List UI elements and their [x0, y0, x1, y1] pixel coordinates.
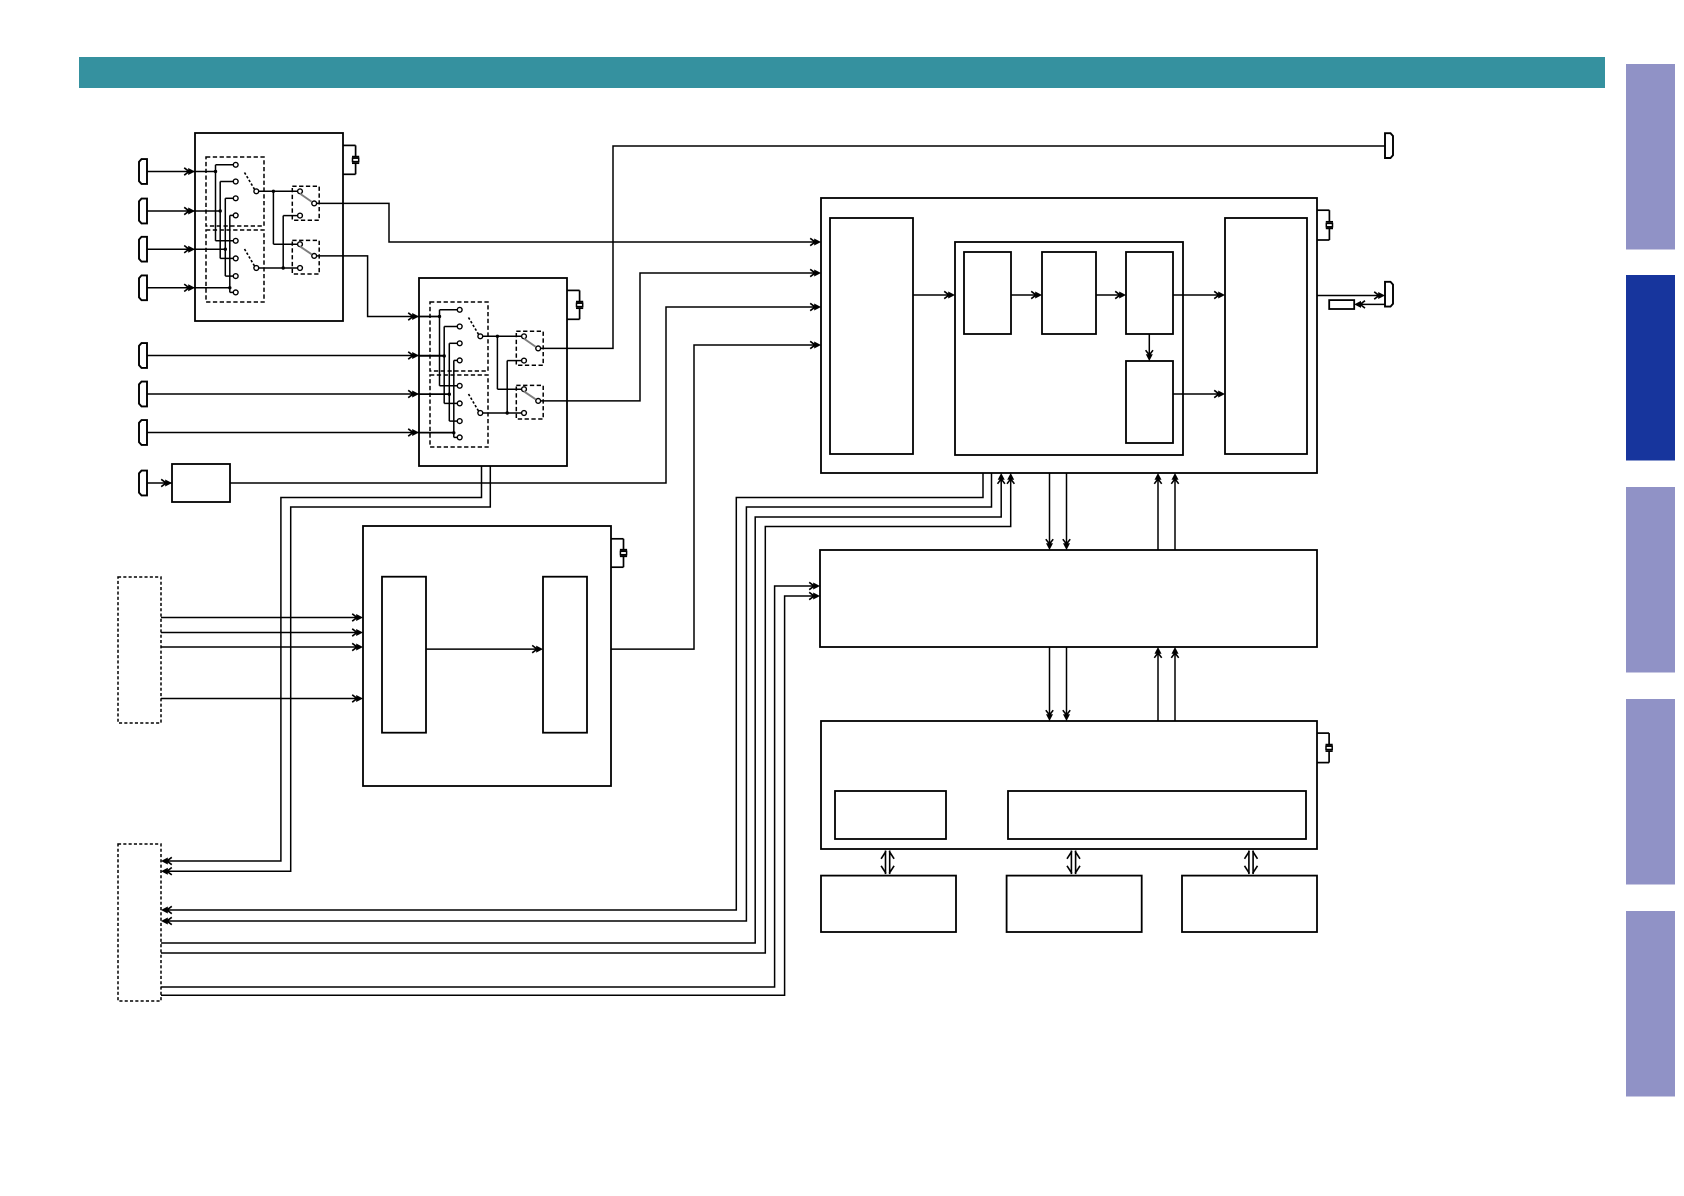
connector J1 [139, 159, 147, 184]
SW1 input2 entry wire [195, 210, 220, 212]
connector J2 [139, 199, 147, 224]
SW1 rotary A pole wire [259, 190, 297, 192]
bus down CPU to G #1 [1049, 473, 1051, 547]
bus down G to H #1 [1049, 647, 1051, 718]
SW1 rotary A wiper arm [245, 173, 255, 190]
wire keypad to CPU f [161, 476, 1011, 953]
SW2 input2 link to contact 2a [444, 326, 457, 328]
arrow into F #2 [352, 629, 363, 636]
SW1 rotary B pole wire [259, 267, 297, 269]
SW1 out-switch U pole [312, 201, 317, 206]
arrow into F #3 [352, 643, 363, 650]
connector J8 [139, 471, 147, 496]
arrow into SW1 input 4 [184, 284, 195, 291]
teal title bar [79, 57, 1605, 88]
SW1 pole A cross-link to switch L [273, 243, 297, 245]
SW2 input2 junction [443, 354, 446, 357]
SW1 input1 riser [215, 165, 217, 241]
SW2 outer box [419, 278, 567, 466]
H sub-block bus interface [1008, 791, 1306, 839]
arrow into driver bottom [1214, 390, 1225, 397]
SW2 rotary section B (dashed) [430, 375, 488, 447]
CPU stage D [1126, 361, 1173, 443]
F sub-block driver 2 [543, 577, 587, 733]
wire F1 to F2 [426, 648, 540, 650]
wire F out to CPU [611, 345, 818, 649]
SW2 input4 junction [452, 431, 455, 434]
connector CN9 (top right) [1385, 133, 1393, 158]
wire J6 to SW2 [147, 393, 449, 395]
controller box H [821, 721, 1317, 849]
terminator component [1329, 300, 1354, 309]
SW1 input2 link to contact 2a [220, 181, 233, 183]
wire keypad to G g [161, 586, 817, 987]
SW2 rotary B contact 1 [457, 383, 462, 388]
SW1 input3 entry wire [195, 248, 225, 250]
SW2 rotary A contact 1 [457, 307, 462, 312]
SW1 outer box [195, 133, 343, 321]
arrow into CPU input 2 [810, 269, 821, 276]
SW2 rotary A pole wire [483, 335, 521, 337]
wire CPU out to CN10 [1317, 295, 1382, 297]
wire J2 to SW1 [147, 210, 195, 212]
wire CN10 return to terminator [1357, 303, 1385, 305]
bus arrow H to M1 [881, 851, 894, 875]
wire J7 to SW2 [147, 432, 454, 434]
arrow into SW2 input 3 [408, 390, 419, 397]
CPU stage B [1042, 252, 1096, 334]
wire stage B to C [1096, 294, 1123, 296]
SW2 rotary B contact 2 [457, 401, 462, 406]
crystal X5 [611, 539, 627, 567]
SW1 input3 link to contact 3a [225, 197, 233, 199]
SW2 rotary A pole [478, 334, 483, 339]
SW2 pole A tee junction [496, 335, 499, 338]
wire buffer out to main CPU [230, 307, 818, 483]
side tab 1 [1626, 64, 1675, 250]
wire SW1 out-L to SW2 [317, 256, 440, 317]
arrow into core frame [944, 291, 955, 298]
arrow into SW2 input 1 [408, 313, 419, 320]
wire SW2 out-U to video connector [541, 146, 1385, 348]
SW1 input1 link to contact 1a [216, 164, 234, 166]
SW1 out-switch L arm [300, 246, 312, 254]
crystal X3 [1317, 210, 1333, 240]
SW1 rotary B contact 1 [233, 238, 238, 243]
keypad box K (dashed) [118, 844, 161, 1001]
LCD drive box F [363, 526, 611, 786]
SW2 pole B tee junction [506, 411, 509, 414]
SW1 out-switch U (dashed) [292, 186, 319, 220]
SW2 input1 entry wire [419, 316, 440, 318]
arrow into F #1 [352, 614, 363, 621]
arrow into G left g [809, 582, 820, 589]
arrow into F #4 [352, 695, 363, 702]
arrow into SW1 input 3 [184, 246, 195, 253]
CPU input buffer block [830, 218, 913, 454]
wire J1 to SW1 [147, 171, 195, 173]
side tab 2 (active) [1626, 275, 1675, 461]
arrow into terminator [1354, 301, 1365, 308]
SW2 input2 riser [443, 327, 445, 404]
arrow into CPU bottom #2 [1171, 473, 1178, 484]
side tab 5 [1626, 911, 1675, 1097]
bus up H to G #1 [1157, 650, 1159, 721]
SW1 rotary B contact 3 [233, 274, 238, 279]
main CPU box U1 [821, 198, 1317, 473]
wire keypad to G h [161, 596, 817, 995]
bus up G to CPU #2 [1174, 476, 1176, 550]
arrow into keypad box b [161, 868, 172, 875]
SW1 out-switch L contact bottom [298, 266, 303, 271]
SW1 input1 link to contact 1b [216, 240, 234, 242]
CPU stage A [964, 252, 1011, 334]
arrow into keypad box c [161, 906, 172, 913]
arrow into SW1 input 1 [184, 168, 195, 175]
SW1 input3 riser [224, 198, 226, 276]
SW1 input1 entry wire [195, 171, 216, 173]
SW1 rotary section B (dashed) [206, 230, 264, 302]
SW1 out-switch U contact top [298, 189, 303, 194]
SW2 rotary B pole [478, 411, 483, 416]
arrow into CPU input 4 [810, 341, 821, 348]
CPU output driver block [1225, 218, 1307, 454]
wire stage C to output driver [1173, 294, 1222, 296]
bus down G to H #2 [1066, 647, 1068, 718]
SW1 pole A tee junction [272, 190, 275, 193]
SW2 rotary section A (dashed) [430, 302, 488, 371]
SW2 input4 link to contact 4a [454, 359, 457, 361]
memory box M1 [821, 876, 956, 932]
bus arrow H to M2 [1067, 851, 1080, 875]
SW2 rotary B contact 4 [457, 435, 462, 440]
SW2 out-switch U arm [524, 339, 536, 347]
wire CPU out to keypad d [164, 473, 992, 921]
arrow into keypad box d [161, 917, 172, 924]
F sub-block driver 1 [382, 577, 426, 733]
arrow into G top #2 [1063, 539, 1070, 550]
SW2 out-switch L arm [524, 391, 536, 399]
SW2 input4 link to contact 4b [454, 436, 457, 438]
wire stage A to B [1011, 294, 1039, 296]
panel box P1 (dashed) [118, 577, 161, 723]
SW1 pole B cross-link riser [282, 216, 284, 268]
bus arrow H to M3 [1245, 851, 1258, 875]
SW2 input3 riser [448, 343, 450, 421]
SW1 out-switch U contact bottom [298, 213, 303, 218]
wire stage C to D [1148, 334, 1150, 358]
side tab 4 [1626, 699, 1675, 885]
SW1 pole A cross-link riser [272, 191, 274, 244]
connector J3 [139, 237, 147, 262]
wire P1 to F #4 [161, 698, 360, 700]
H sub-block RAM [835, 791, 946, 839]
arrow into SW1 input 2 [184, 207, 195, 214]
arrow into buffer box [161, 479, 172, 486]
connector J4 [139, 275, 147, 300]
bus down CPU to G #2 [1066, 473, 1068, 547]
wire CPU out to keypad c [164, 473, 983, 910]
SW2 out-switch U contact top [522, 334, 527, 339]
arrow into H top #1 [1046, 710, 1053, 721]
crystal X4 [1317, 733, 1333, 763]
SW2 out-switch U contact bottom [522, 358, 527, 363]
SW1 out-switch L pole [312, 254, 317, 259]
SW2 input1 junction [438, 315, 441, 318]
SW1 input4 riser [229, 215, 231, 292]
SW1 out-switch L contact top [298, 242, 303, 247]
wire P1 to F #1 [161, 617, 360, 619]
SW2 pole A cross-link riser [496, 336, 498, 389]
crystal X1 [343, 145, 359, 174]
arrow into SW2 input 2 [408, 352, 419, 359]
SW1 rotary A contact 2 [233, 179, 238, 184]
SW1 out-switch U arm [300, 194, 312, 202]
SW2 input1 link to contact 1a [440, 309, 458, 311]
SW2 rotary A wiper arm [469, 318, 479, 335]
SW1 input4 link to contact 4a [230, 214, 233, 216]
SW2 pole A cross-link to switch L [497, 388, 521, 390]
arrow into CPU bottom #1 [1154, 473, 1161, 484]
SW1 rotary A pole [254, 189, 259, 194]
SW1 input4 entry wire [195, 287, 230, 289]
wire J8 to buffer box [147, 482, 172, 484]
arrow into G bottom #2 [1171, 647, 1178, 658]
wire J3 to SW1 [147, 248, 195, 250]
crystal X2 [567, 290, 583, 319]
SW2 input3 link to contact 3a [449, 342, 457, 344]
SW2 input1 link to contact 1b [440, 385, 458, 387]
SW1 input2 riser [219, 182, 221, 259]
wire stage D to output driver [1173, 393, 1222, 395]
SW1 pole B tee junction [282, 266, 285, 269]
SW2 rotary B wiper arm [469, 394, 479, 411]
SW1 pole B cross-link to switch U [283, 215, 297, 217]
SW1 rotary A contact 4 [233, 213, 238, 218]
SW1 input3 junction [224, 248, 227, 251]
wire SW2 tap B to keypad box [164, 466, 490, 871]
SW2 out-switch U pole [536, 346, 541, 351]
SW2 input2 link to contact 2b [444, 402, 457, 404]
connector J6 [139, 382, 147, 407]
wire SW2 tap A to keypad box [164, 466, 482, 861]
SW2 rotary B contact 3 [457, 419, 462, 424]
connector J7 [139, 420, 147, 445]
buffer box U10 [172, 464, 230, 502]
SW2 out-switch L pole [536, 399, 541, 404]
connector CN10 (RF out) [1385, 282, 1393, 307]
CPU stage C [1126, 252, 1173, 334]
SW1 rotary A contact 1 [233, 162, 238, 167]
SW2 input1 riser [439, 310, 441, 386]
wire keypad to CPU e [161, 476, 1001, 943]
SW2 input4 entry wire [419, 432, 454, 434]
arrow into CPU bottom f [1007, 473, 1014, 484]
SW1 rotary B contact 4 [233, 290, 238, 295]
connector J5 [139, 343, 147, 368]
arrow into CPU bottom e [998, 473, 1005, 484]
SW2 rotary A contact 4 [457, 358, 462, 363]
SW2 pole B cross-link riser [506, 361, 508, 413]
arrow into G bottom #1 [1154, 647, 1161, 658]
arrow into G top #1 [1046, 539, 1053, 550]
memory box M3 [1182, 876, 1317, 932]
SW2 input2 entry wire [419, 355, 444, 357]
arrow into keypad box a [161, 857, 172, 864]
arrow into driver top [1214, 291, 1225, 298]
arrow into stage B [1031, 291, 1042, 298]
SW2 input4 riser [453, 360, 455, 437]
SW2 rotary B pole wire [483, 412, 521, 414]
SW1 rotary B wiper arm [245, 249, 255, 266]
wire SW1 out-U to CPU [317, 203, 818, 242]
SW2 input3 junction [448, 393, 451, 396]
SW1 input1 junction [214, 170, 217, 173]
SW2 out-switch U (dashed) [516, 331, 543, 365]
side tab 3 [1626, 487, 1675, 673]
SW1 rotary B pole [254, 266, 259, 271]
wire buffer to core [913, 294, 952, 296]
SW2 rotary A contact 2 [457, 324, 462, 329]
SW2 rotary A contact 3 [457, 341, 462, 346]
memory box M2 [1007, 876, 1142, 932]
wire SW2 out-L to CPU [541, 273, 818, 401]
wire J5 to SW2 [147, 355, 444, 357]
arrow into stage C [1115, 291, 1126, 298]
SW2 out-switch L (dashed) [516, 385, 543, 419]
arrow into F2 [532, 645, 543, 652]
SW1 out-switch L (dashed) [292, 240, 319, 274]
arrow into G left h [809, 592, 820, 599]
SW2 pole B cross-link to switch U [507, 360, 521, 362]
arrow into CN10 [1374, 292, 1385, 299]
SW1 input2 link to contact 2b [220, 257, 233, 259]
SW1 input2 junction [219, 209, 222, 212]
wire P1 to F #2 [161, 632, 360, 634]
wire P1 to F #3 [161, 646, 360, 648]
wire J4 to SW1 [147, 287, 195, 289]
SW1 input3 link to contact 3b [225, 275, 233, 277]
SW2 out-switch L contact bottom [522, 411, 527, 416]
SW1 rotary B contact 2 [233, 256, 238, 261]
arrow into stage D [1146, 350, 1153, 361]
arrow into H top #2 [1063, 710, 1070, 721]
SW1 rotary section A (dashed) [206, 157, 264, 226]
gate array box G [820, 550, 1317, 647]
CPU core frame [955, 242, 1183, 455]
arrow into CPU input 1 [810, 238, 821, 245]
arrow into CPU input 3 [810, 303, 821, 310]
SW2 input3 entry wire [419, 393, 449, 395]
SW1 rotary A contact 3 [233, 196, 238, 201]
SW2 out-switch L contact top [522, 387, 527, 392]
arrow into SW2 input 4 [408, 429, 419, 436]
SW1 input4 junction [228, 286, 231, 289]
bus up G to CPU #1 [1157, 476, 1159, 550]
bus up H to G #2 [1174, 650, 1176, 721]
SW1 input4 link to contact 4b [230, 291, 233, 293]
SW2 input3 link to contact 3b [449, 420, 457, 422]
